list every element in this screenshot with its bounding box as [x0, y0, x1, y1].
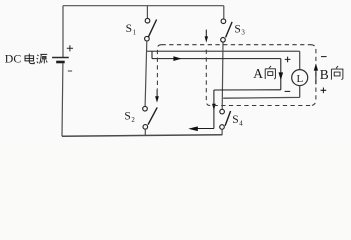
battery plus sign: [67, 45, 73, 51]
dashed path B: bottom run: [210, 105, 310, 107]
current path A top run rightward: [152, 58, 281, 60]
svg-text:DC: DC: [5, 51, 22, 65]
lamp L: [292, 70, 308, 86]
switch S1 blade: [148, 20, 156, 37]
current path A down run beside lamp: [280, 59, 282, 90]
wire left side lower: [61, 63, 64, 136]
wire main node-M to lamp top: [147, 51, 300, 69]
arrow into S3 (B path entry): [205, 30, 207, 38]
lamp plus sign left: [285, 57, 291, 63]
dashed path B: top run: [162, 44, 311, 46]
svg-text:L: L: [297, 73, 304, 85]
svg-text:1: 1: [133, 29, 137, 36]
svg-text:S: S: [124, 111, 130, 123]
right plus sign: [321, 88, 327, 94]
wire S4 to bottom bus: [221, 129, 223, 135]
current path A stub from node M: [151, 51, 153, 58]
switch S2 blade: [148, 107, 157, 124]
wire S3 branch drop: [223, 6, 225, 19]
switch S4 bottom terminal: [220, 125, 225, 130]
svg-text:A: A: [253, 66, 263, 81]
switch S2 bottom terminal: [143, 125, 148, 130]
right minus sign: [321, 56, 327, 58]
svg-text:S: S: [126, 23, 132, 35]
switch S4 top terminal: [220, 109, 225, 114]
switch S2 top terminal: [143, 106, 148, 111]
battery minus sign: [68, 70, 72, 72]
current path A down run 2: [213, 90, 215, 129]
dashed path B arrow down to S2: [156, 89, 158, 96]
wire right column S3 to S4: [221, 42, 224, 109]
battery positive plate: [52, 57, 69, 59]
hanzi yuan (source): [37, 54, 48, 63]
battery negative plate: [56, 61, 64, 64]
svg-text:2: 2: [131, 117, 135, 124]
dashed path B: left vertical with curve from top line: [157, 45, 161, 90]
hanzi xiang (direction) for B: [331, 66, 343, 80]
switch S3 top terminal: [221, 19, 226, 24]
dashed path B: right side: [310, 45, 316, 106]
current path A arrow down 2: [212, 104, 216, 110]
switch S1 top terminal: [145, 18, 150, 23]
current path A final run with left arrow: [197, 128, 214, 130]
wire left column S1 to S2: [145, 41, 147, 106]
hanzi xiang (direction) for A: [265, 66, 275, 79]
current path A arrow down (A direction through lamp): [279, 72, 284, 80]
wire lamp bottom return: [223, 86, 300, 99]
switch S3 bottom terminal: [221, 38, 226, 43]
svg-text:3: 3: [241, 30, 245, 37]
svg-text:S: S: [234, 23, 240, 35]
wire bottom bus: [62, 135, 222, 137]
svg-text:4: 4: [239, 121, 243, 128]
switch S3 blade: [226, 22, 233, 38]
wire S2 to bottom bus: [144, 129, 146, 136]
svg-text:S: S: [232, 114, 238, 126]
dashed path B arrow up beside lamp (B direction): [315, 69, 317, 84]
current path A bottom run leftward: [214, 89, 281, 91]
svg-text:B: B: [320, 67, 329, 82]
switch S4 blade: [225, 111, 231, 126]
dashed path B: mid vertical: [206, 47, 210, 106]
current path A arrow right: [173, 56, 181, 61]
wire top bus: [63, 5, 224, 7]
switch S1 bottom terminal: [145, 36, 150, 41]
hanzi dian (electric): [25, 54, 34, 64]
wire S1 branch drop: [146, 6, 148, 19]
lamp minus sign left: [285, 90, 291, 92]
wire left side upper: [62, 6, 64, 58]
